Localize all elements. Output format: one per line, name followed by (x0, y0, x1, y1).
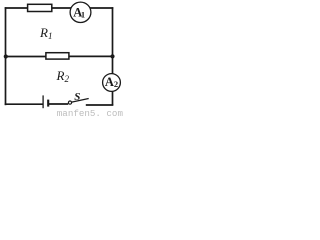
wire right vertical lower (112, 91, 114, 105)
resistor R2 (46, 53, 69, 59)
switch S blade (72, 99, 89, 103)
battery short plate (47, 100, 49, 107)
wire middle right segment (69, 55, 113, 57)
wire bottom right segment (86, 104, 114, 106)
wire top right segment (90, 7, 113, 9)
ammeter A2 (103, 74, 121, 92)
wire bottom middle segment (49, 103, 68, 105)
svg-text:S: S (74, 91, 80, 103)
svg-text:manfen5. com: manfen5. com (57, 108, 124, 118)
resistor R1 (28, 4, 52, 11)
switch S pivot (68, 101, 71, 104)
wire left vertical (5, 7, 7, 105)
wire middle left segment (6, 56, 47, 58)
node junction right (110, 54, 114, 58)
battery long plate (42, 95, 44, 108)
ammeter A1 (70, 2, 91, 22)
wire top left segment (5, 7, 28, 9)
node junction left (4, 54, 8, 58)
wire top middle segment (52, 7, 72, 9)
wire bottom left segment (5, 103, 43, 105)
wire right vertical upper (112, 7, 114, 74)
